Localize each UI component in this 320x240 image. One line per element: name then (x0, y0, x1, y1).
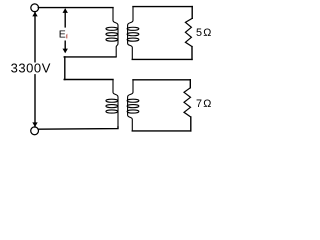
node E1 annotation line (64, 10, 66, 27)
wire: resistor R1 bottom lead (191, 47, 193, 60)
wire: vertical connector between primaries (64, 57, 66, 80)
wire: secondary loop 1 top rail (133, 6, 192, 8)
terminal top-left (circle) (31, 4, 39, 12)
arrowhead up at source top (32, 12, 37, 17)
svg-text:7: 7 (196, 98, 202, 110)
wire: source vertical upper segment (34, 12, 36, 62)
terminal bottom-left (circle) (31, 127, 39, 135)
transformer T2 secondary winding L4 (127, 80, 139, 131)
wire: resistor R1 top lead (191, 7, 193, 19)
arrowhead down E1 bottom (63, 49, 68, 54)
wire: middle wire2 (top of primary 2) (64, 79, 113, 81)
transformer T1 primary winding L1 (106, 8, 118, 57)
arrowhead down at source bottom (32, 122, 37, 127)
wire: bottom rail from primary 2 to bottom terminal (38, 127, 118, 129)
svg-text:Ω: Ω (203, 27, 211, 39)
svg-text:E: E (59, 28, 66, 40)
wire: middle wire1 (bottom of primary 1) (64, 56, 116, 58)
wire: resistor R2 bottom lead (190, 117, 192, 131)
wire: source vertical lower segment (34, 75, 36, 127)
wire: top rail from top terminal to primary 1 (38, 7, 113, 9)
arrowhead up E1 top (63, 8, 68, 13)
transformer T1 secondary winding L2 (127, 7, 139, 60)
svg-text:Ω: Ω (203, 98, 211, 110)
wire: resistor R2 top lead (189, 80, 191, 88)
wire: secondary loop 1 bottom rail (132, 58, 192, 60)
wire: secondary loop 2 bottom rail (132, 130, 191, 132)
svg-text:3300V: 3300V (11, 61, 51, 76)
resistor R1 (5 ohm) zigzag (185, 18, 192, 46)
transformer T2 primary winding L3 (106, 80, 118, 127)
resistor R2 (7 ohm) zigzag (184, 88, 191, 117)
wire: secondary loop 2 top rail (133, 79, 190, 81)
svg-text:5: 5 (196, 27, 202, 39)
